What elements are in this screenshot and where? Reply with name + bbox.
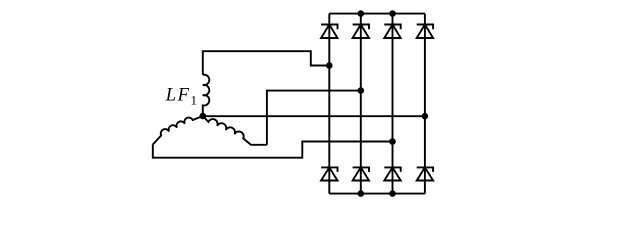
diode VD1 xyxy=(321,25,337,39)
junction: AC input on leg 1 xyxy=(326,62,333,69)
diode VD2 xyxy=(353,25,369,39)
wire from winding left end to bridge leg 3 xyxy=(153,142,393,158)
junction: AC input on leg 4 xyxy=(422,113,429,120)
diode VD8 xyxy=(417,167,433,180)
junction: bottom bus / leg 3 xyxy=(389,190,396,197)
winding right half xyxy=(203,116,267,145)
node: winding center tap xyxy=(200,113,207,120)
junction: bottom bus / leg 2 xyxy=(358,190,365,197)
junction: top bus / leg 2 xyxy=(358,10,365,17)
wire: bridge leg 1 xyxy=(328,14,330,194)
svg-text:LF1: LF1 xyxy=(165,86,197,108)
diode VD3 xyxy=(384,25,400,39)
diode VD7 xyxy=(384,167,400,180)
diode VD6 xyxy=(353,167,369,180)
wire from winding center node to bridge leg 4 xyxy=(203,115,425,117)
top bus xyxy=(329,13,425,15)
wire from LF1 top to bridge leg 1 xyxy=(203,51,329,75)
junction: top bus / leg 3 xyxy=(389,10,396,17)
wire: bridge leg 2 xyxy=(360,14,362,194)
winding left half xyxy=(153,116,203,145)
wire: bridge leg 4 xyxy=(424,14,426,194)
wire: bridge leg 3 xyxy=(392,14,394,194)
bottom bus xyxy=(329,193,425,195)
wire from winding right end to bridge leg 2 xyxy=(267,91,361,145)
diode VD5 xyxy=(321,167,337,180)
diode VD4 xyxy=(417,25,433,39)
junction: AC input on leg 3 xyxy=(389,138,396,145)
junction: AC input on leg 2 xyxy=(358,87,365,94)
inductor LF1 xyxy=(203,75,209,116)
